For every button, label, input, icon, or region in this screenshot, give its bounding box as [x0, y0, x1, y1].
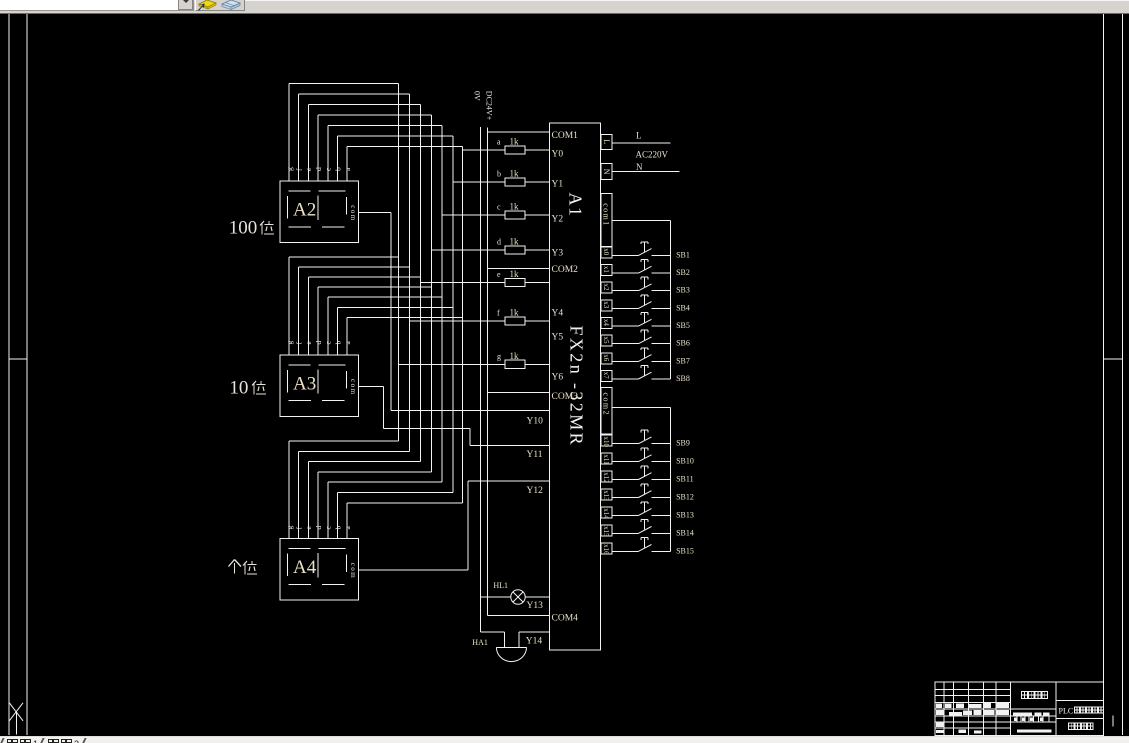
svg-text:Y4: Y4 [552, 308, 564, 318]
svg-text:HA1: HA1 [472, 638, 488, 647]
7-segment display A2 [280, 181, 358, 243]
wire COM1 [487, 131, 549, 133]
terminal x10 [601, 435, 612, 447]
svg-text:x6: x6 [602, 354, 610, 362]
pushbutton SB15 [612, 538, 694, 556]
svg-text:f: f [497, 308, 500, 317]
power rail 0V [473, 91, 482, 632]
resistor b 1k [453, 168, 549, 186]
svg-text:Y11: Y11 [527, 450, 543, 460]
svg-text:SB10: SB10 [676, 457, 694, 466]
svg-text:COM2: COM2 [552, 265, 579, 275]
wire A4 pin c to bus [328, 481, 442, 483]
svg-text:1k: 1k [510, 201, 520, 211]
wire A4 pin a to bus [347, 502, 462, 504]
svg-text:Y13: Y13 [527, 601, 544, 611]
svg-text:x13: x13 [602, 490, 610, 501]
wire A2 pin g to bus [289, 82, 399, 84]
text 材料标记 [1022, 692, 1048, 699]
svg-text:com: com [349, 563, 357, 580]
svg-text:com2: com2 [602, 393, 611, 416]
PLC pin labels [526, 131, 578, 647]
terminal N [601, 162, 680, 180]
svg-text:SB11: SB11 [676, 475, 694, 484]
wire COM4 [487, 615, 549, 617]
wire Y12 [468, 480, 549, 482]
terminal x14 [601, 507, 612, 519]
power rail DC24V+ [484, 91, 493, 616]
pin labels A3 (g f e d c b a) [285, 341, 352, 345]
wire Y14 [519, 631, 550, 633]
terminal x15 [601, 525, 612, 537]
wire segment-bus d vertical [430, 115, 432, 472]
7-segment display A3 [280, 355, 358, 417]
svg-text:SB13: SB13 [676, 510, 694, 519]
svg-text:SB4: SB4 [676, 303, 690, 312]
svg-text:d: d [314, 526, 323, 530]
terminal x5 [601, 335, 612, 346]
wire Y13 [525, 596, 549, 598]
svg-text:A3: A3 [293, 373, 316, 394]
svg-text:x10: x10 [602, 437, 610, 448]
svg-text:A2: A2 [293, 200, 316, 221]
wire segment-bus a vertical [462, 146, 464, 503]
pushbutton SB3 [612, 277, 690, 295]
resistor a 1k [463, 136, 550, 154]
svg-text:com: com [349, 205, 357, 222]
svg-text:1k: 1k [510, 351, 520, 361]
pushbutton SB5 [612, 313, 690, 331]
wire COM2 [487, 267, 549, 269]
svg-text:SB6: SB6 [676, 339, 690, 348]
svg-text:10: 10 [229, 378, 248, 399]
resistor c 1k [442, 201, 549, 219]
terminal x0 [601, 247, 612, 258]
svg-text:FX2n -32MR: FX2n -32MR [567, 326, 587, 448]
wire A3 pin f to bus [299, 266, 410, 268]
wire Y11 [470, 444, 550, 446]
svg-text:SB1: SB1 [676, 250, 690, 259]
wire A2 pin a to bus [347, 145, 462, 147]
svg-text:N: N [636, 162, 643, 172]
svg-text:d: d [314, 167, 323, 171]
svg-text:x16: x16 [602, 544, 610, 555]
svg-text:Y3: Y3 [552, 249, 564, 259]
svg-text:Y6: Y6 [552, 373, 564, 383]
wire A3 pin d to bus [318, 286, 431, 288]
svg-text:A1: A1 [566, 193, 586, 218]
svg-text:1k: 1k [510, 168, 520, 178]
wire A2 pin d to bus [318, 114, 431, 116]
terminal com1 [601, 193, 671, 246]
svg-text:x15: x15 [602, 526, 610, 537]
svg-text:b: b [333, 167, 342, 171]
pushbutton SB13 [612, 502, 694, 520]
svg-text:Y14: Y14 [526, 637, 543, 647]
svg-text:com1: com1 [602, 203, 611, 226]
svg-text:d: d [497, 237, 501, 246]
svg-text:g: g [285, 341, 294, 345]
svg-text:100: 100 [229, 218, 258, 239]
wire A2 pin f to bus [299, 93, 410, 95]
terminal x16 [601, 543, 612, 555]
svg-text:COM3: COM3 [552, 392, 579, 402]
terminal com2 [601, 388, 671, 434]
resistor g 1k [399, 351, 550, 369]
svg-text:x2: x2 [602, 284, 610, 292]
svg-text:x11: x11 [602, 454, 610, 465]
svg-text:x12: x12 [602, 472, 610, 483]
resistor d 1k [431, 236, 549, 254]
wire A2 pin e to bus [308, 103, 420, 105]
svg-text:b: b [333, 341, 342, 345]
svg-text:com: com [349, 379, 357, 396]
terminal x7 [601, 371, 612, 382]
wire A2 com to Y10 [359, 213, 550, 411]
svg-text:N: N [602, 169, 611, 175]
wire common bus group2 [670, 407, 672, 551]
wire segment-bus f vertical [409, 94, 411, 452]
svg-text:SB3: SB3 [676, 286, 690, 295]
pushbutton SB8 [612, 365, 690, 383]
svg-text:Y1: Y1 [552, 180, 564, 190]
label 10位 [229, 378, 266, 399]
svg-text:SB8: SB8 [676, 374, 690, 383]
wire A3 pin e to bus [308, 276, 420, 278]
terminal x4 [601, 318, 612, 329]
svg-text:COM4: COM4 [552, 613, 579, 623]
terminal x2 [601, 282, 612, 293]
svg-text:1k: 1k [510, 236, 520, 246]
svg-text:0V: 0V [473, 91, 482, 101]
wire A2 pin b to bus [338, 135, 454, 137]
svg-text:d: d [314, 341, 323, 345]
pushbutton SB7 [612, 348, 690, 366]
pushbutton SB9 [612, 430, 690, 448]
wire segment-bus b vertical [452, 136, 454, 493]
svg-text:1k: 1k [510, 136, 520, 146]
svg-text:x7: x7 [602, 372, 610, 380]
svg-text:Y2: Y2 [552, 215, 564, 225]
terminal x6 [601, 353, 612, 364]
svg-text:AC220V: AC220V [636, 149, 669, 159]
terminal x12 [601, 471, 612, 483]
svg-text:SB2: SB2 [676, 268, 690, 277]
wire segment-bus c vertical [441, 125, 443, 482]
svg-text:x3: x3 [602, 301, 610, 309]
wire Y10 [391, 410, 550, 412]
label 100位 [229, 218, 274, 239]
svg-text:x0: x0 [602, 248, 610, 256]
svg-text:SB14: SB14 [676, 528, 694, 537]
svg-text:SB15: SB15 [676, 546, 694, 555]
wire A3 com to Y11 [359, 386, 550, 445]
wire common bus group1 [669, 221, 671, 379]
wire A3 pin c to bus [328, 296, 442, 298]
svg-text:x4: x4 [602, 319, 610, 327]
terminal x3 [601, 300, 612, 311]
text 图样代号 [1069, 723, 1094, 730]
wire A2 pin c to bus [328, 124, 442, 126]
svg-text:SB9: SB9 [676, 439, 690, 448]
wire A4 pin b to bus [338, 492, 454, 494]
svg-text:Y12: Y12 [527, 486, 544, 496]
wire A3 pin a to bus [347, 316, 462, 318]
pushbutton SB10 [612, 448, 694, 466]
svg-text:Y5: Y5 [552, 333, 564, 343]
resistor e 1k [420, 269, 549, 287]
wire A4 pin g to bus [289, 440, 399, 442]
wire A4 pin f to bus [299, 450, 410, 452]
svg-text:PLC: PLC [1059, 707, 1074, 716]
wire COM3 [487, 392, 549, 394]
pushbutton SB14 [612, 520, 694, 538]
svg-text:Y0: Y0 [552, 150, 564, 160]
svg-text:c: c [497, 202, 501, 211]
svg-text:SB12: SB12 [676, 493, 694, 502]
wire segment-bus e vertical [419, 104, 421, 461]
svg-text:COM1: COM1 [552, 131, 579, 141]
svg-text:A4: A4 [293, 557, 317, 578]
terminal x13 [601, 489, 612, 501]
svg-text:1k: 1k [510, 269, 520, 279]
pushbutton SB2 [612, 260, 690, 278]
title block [935, 682, 1104, 736]
terminal x1 [601, 265, 612, 276]
svg-text:g: g [285, 167, 294, 171]
svg-text:x1: x1 [602, 266, 610, 274]
svg-text:SB5: SB5 [676, 321, 690, 330]
svg-text:e: e [497, 270, 501, 279]
svg-text:HL1: HL1 [493, 581, 508, 590]
svg-text:g: g [497, 352, 501, 361]
svg-text:Y10: Y10 [527, 417, 544, 427]
text PLC外部接线图 [1059, 707, 1104, 716]
PLC A1 FX2n-32MR [550, 123, 601, 650]
svg-text:b: b [497, 169, 501, 178]
svg-text:DC24V+: DC24V+ [484, 91, 493, 121]
wire A3 pin b to bus [338, 306, 454, 308]
svg-text:a: a [497, 137, 501, 146]
svg-text:x5: x5 [602, 337, 610, 345]
pin labels A4 (g f e d c b a) [285, 526, 352, 530]
wire A4 com to Y12 [359, 481, 550, 570]
pin labels A2 (g f e d c b a) [285, 167, 352, 171]
svg-text:SB7: SB7 [676, 356, 690, 365]
wire A3 pin g to bus [289, 256, 399, 258]
terminal L [601, 131, 671, 150]
terminal x11 [601, 453, 612, 465]
7-segment display A4 [280, 539, 358, 601]
svg-text:1k: 1k [510, 307, 520, 317]
title block text blobs [936, 703, 1051, 734]
svg-text:x14: x14 [602, 508, 610, 519]
horn HA1 [472, 632, 549, 661]
svg-text:g: g [285, 526, 294, 530]
resistor f 1k [410, 307, 550, 325]
pushbutton SB4 [612, 295, 690, 313]
svg-text:L: L [636, 131, 642, 141]
wire A4 pin e to bus [308, 461, 420, 463]
svg-text:L: L [602, 139, 611, 144]
pushbutton SB1 [612, 242, 690, 260]
pushbutton SB12 [612, 484, 694, 502]
lamp HL1 [480, 581, 549, 604]
UCS icon [9, 703, 23, 735]
wire A4 pin d to bus [318, 471, 431, 473]
label 个位 [229, 560, 258, 575]
pushbutton SB11 [612, 466, 693, 484]
pushbutton SB6 [612, 330, 690, 348]
svg-text:b: b [333, 526, 342, 530]
wire segment-bus g vertical [398, 83, 400, 441]
